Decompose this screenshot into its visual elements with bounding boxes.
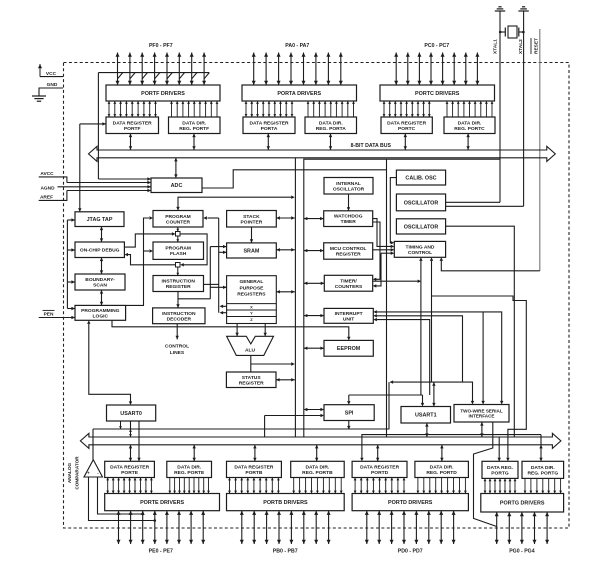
svg-text:PORTE: PORTE — [121, 470, 139, 476]
svg-text:DATA REGISTER: DATA REGISTER — [113, 120, 153, 126]
svg-text:PORTA: PORTA — [261, 126, 278, 132]
svg-text:LOGIC: LOGIC — [93, 313, 109, 319]
svg-text:SCAN: SCAN — [93, 283, 107, 289]
svg-text:DATA DIR.: DATA DIR. — [531, 465, 555, 471]
svg-text:8-BIT DATA BUS: 8-BIT DATA BUS — [351, 143, 392, 149]
svg-text:PORTC DRIVERS: PORTC DRIVERS — [415, 91, 460, 97]
svg-text:TIMING AND: TIMING AND — [406, 244, 435, 250]
svg-text:GND: GND — [47, 82, 58, 88]
svg-text:MCU CONTROL: MCU CONTROL — [330, 246, 367, 252]
svg-text:AREF: AREF — [40, 194, 53, 200]
svg-text:PORTB: PORTB — [245, 470, 263, 476]
svg-text:CONTROL: CONTROL — [408, 250, 432, 256]
svg-text:REG. PORTF: REG. PORTF — [179, 126, 209, 132]
svg-text:AVCC: AVCC — [40, 171, 54, 177]
svg-text:POINTER: POINTER — [241, 219, 263, 225]
svg-text:DATA REGISTER: DATA REGISTER — [249, 120, 289, 126]
svg-text:INSTRUCTION: INSTRUCTION — [161, 279, 195, 285]
svg-text:PORTF DRIVERS: PORTF DRIVERS — [141, 91, 185, 97]
svg-text:XTAL1: XTAL1 — [493, 39, 499, 54]
svg-text:ADC: ADC — [171, 183, 183, 189]
svg-text:VCC: VCC — [46, 71, 57, 77]
svg-text:AGND: AGND — [40, 186, 55, 192]
svg-text:PORTE DRIVERS: PORTE DRIVERS — [140, 500, 184, 506]
svg-text:REGISTER: REGISTER — [336, 252, 361, 258]
svg-text:DATA DIR.: DATA DIR. — [177, 464, 201, 470]
svg-text:PORTB DRIVERS: PORTB DRIVERS — [263, 500, 308, 506]
svg-text:RESET: RESET — [534, 38, 540, 54]
svg-text:REGISTERS: REGISTERS — [237, 292, 266, 298]
svg-text:COUNTERS: COUNTERS — [335, 284, 363, 290]
svg-text:STATUS: STATUS — [242, 375, 262, 381]
svg-text:REG. PORTB: REG. PORTB — [302, 470, 333, 476]
svg-text:PORTA DRIVERS: PORTA DRIVERS — [277, 91, 321, 97]
svg-text:EEPROM: EEPROM — [337, 346, 361, 352]
svg-text:OSCILLATOR: OSCILLATOR — [333, 186, 365, 192]
svg-text:JTAG TAP: JTAG TAP — [87, 217, 113, 223]
svg-text:REG. PORTG: REG. PORTG — [527, 470, 558, 476]
svg-text:FLASH: FLASH — [170, 251, 187, 257]
svg-text:SRAM: SRAM — [243, 248, 259, 254]
svg-text:LINES: LINES — [170, 350, 185, 356]
svg-text:USART0: USART0 — [120, 411, 142, 417]
svg-text:DATA REGISTER: DATA REGISTER — [110, 464, 150, 470]
svg-text:PEN: PEN — [44, 311, 54, 317]
svg-text:DATA REGISTER: DATA REGISTER — [234, 464, 274, 470]
svg-text:PB0 - PB7: PB0 - PB7 — [273, 549, 298, 555]
svg-text:COMPARATOR: COMPARATOR — [75, 456, 80, 490]
svg-text:PORTG DRIVERS: PORTG DRIVERS — [500, 501, 545, 507]
svg-text:PORTD: PORTD — [371, 470, 389, 476]
svg-text:CALIB. OSC: CALIB. OSC — [405, 176, 436, 182]
svg-text:INTERFACE: INTERFACE — [468, 414, 494, 419]
svg-text:Y: Y — [250, 311, 253, 316]
svg-text:DATA REGISTER: DATA REGISTER — [387, 120, 427, 126]
svg-text:ANALOG: ANALOG — [67, 462, 72, 483]
svg-text:REG. PORTD: REG. PORTD — [426, 470, 457, 476]
svg-text:DATA REG.: DATA REG. — [487, 465, 514, 471]
svg-text:COUNTER: COUNTER — [166, 219, 191, 225]
svg-text:DATA DIR.: DATA DIR. — [182, 120, 206, 126]
svg-text:WATCHDOG: WATCHDOG — [334, 214, 363, 220]
svg-text:OSCILLATOR: OSCILLATOR — [404, 200, 439, 206]
svg-text:PF0 - PF7: PF0 - PF7 — [149, 43, 173, 49]
svg-text:GENERAL: GENERAL — [239, 279, 263, 285]
svg-text:DATA REGISTER: DATA REGISTER — [360, 464, 400, 470]
svg-text:PA0 - PA7: PA0 - PA7 — [285, 43, 309, 49]
svg-text:BOUNDARY-: BOUNDARY- — [85, 277, 115, 283]
svg-text:X: X — [250, 304, 253, 309]
svg-text:DATA DIR.: DATA DIR. — [430, 464, 454, 470]
svg-text:PG0 - PG4: PG0 - PG4 — [509, 549, 534, 555]
svg-text:PD0 - PD7: PD0 - PD7 — [398, 549, 423, 555]
svg-text:REG. PORTC: REG. PORTC — [454, 126, 485, 132]
svg-text:INTERNAL: INTERNAL — [336, 181, 361, 187]
svg-text:PORTG: PORTG — [491, 470, 509, 476]
svg-text:INSTRUCTION: INSTRUCTION — [162, 311, 196, 317]
svg-text:XTAL2: XTAL2 — [518, 39, 524, 54]
svg-text:INTERRUPT: INTERRUPT — [335, 311, 363, 317]
svg-text:REGISTER: REGISTER — [166, 284, 191, 290]
svg-text:UNIT: UNIT — [343, 316, 354, 322]
svg-text:SPI: SPI — [345, 411, 354, 417]
svg-text:+: + — [87, 471, 90, 476]
svg-text:ALU: ALU — [245, 347, 256, 353]
svg-text:OSCILLATOR: OSCILLATOR — [404, 224, 439, 230]
svg-text:TIMER: TIMER — [341, 219, 357, 225]
svg-text:STACK: STACK — [243, 214, 260, 220]
svg-text:CONTROL: CONTROL — [165, 344, 189, 350]
svg-text:PC0 - PC7: PC0 - PC7 — [424, 43, 449, 49]
svg-text:PROGRAM: PROGRAM — [165, 246, 191, 252]
svg-text:PORTF: PORTF — [124, 126, 141, 132]
svg-text:PROGRAM: PROGRAM — [165, 214, 191, 220]
svg-text:REG. PORTA: REG. PORTA — [316, 126, 347, 132]
svg-text:ON-CHIP DEBUG: ON-CHIP DEBUG — [80, 248, 120, 254]
svg-text:PURPOSE: PURPOSE — [239, 285, 264, 291]
svg-text:PORTC: PORTC — [398, 126, 416, 132]
svg-text:USART1: USART1 — [415, 413, 437, 419]
svg-text:REGISTER: REGISTER — [239, 380, 264, 386]
svg-text:PORTD DRIVERS: PORTD DRIVERS — [388, 500, 433, 506]
svg-text:PROGRAMMING: PROGRAMMING — [81, 308, 120, 314]
svg-text:DATA DIR.: DATA DIR. — [458, 120, 482, 126]
svg-text:DECODER: DECODER — [167, 316, 192, 322]
svg-text:TIMER/: TIMER/ — [340, 278, 357, 284]
svg-text:REG. PORTE: REG. PORTE — [174, 470, 205, 476]
svg-text:DATA DIR.: DATA DIR. — [305, 464, 329, 470]
svg-text:DATA DIR.: DATA DIR. — [319, 120, 343, 126]
svg-text:PE0 - PE7: PE0 - PE7 — [149, 549, 173, 555]
